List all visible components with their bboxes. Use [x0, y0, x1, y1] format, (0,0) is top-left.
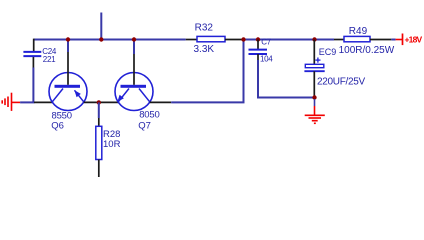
node bus dot EC9: [312, 37, 316, 41]
wire EC9 bottom pin: [313, 71, 315, 97]
wire C24 branch vertical: [33, 39, 35, 52]
svg-text:Q7: Q7: [138, 120, 151, 131]
svg-text:104: 104: [260, 54, 273, 63]
wire R32 left pin: [186, 39, 197, 41]
svg-text:R32: R32: [195, 23, 214, 34]
node bus dot top stub: [99, 37, 103, 41]
capacitor C7: [249, 38, 274, 64]
wire R28 top: [98, 102, 100, 118]
resistor R49: [339, 26, 395, 56]
svg-text:R49: R49: [349, 26, 368, 37]
svg-text:+18V: +18V: [405, 35, 423, 45]
node R28 junction: [97, 100, 101, 104]
wire R49 right pin: [370, 39, 391, 41]
transistor Q7: [115, 40, 160, 132]
resistor R32: [194, 23, 226, 56]
transistor Q6: [49, 40, 87, 132]
wire mid rail pins: [84, 101, 119, 103]
node ground junction: [312, 95, 316, 99]
wire C7 top pin: [257, 40, 259, 50]
svg-text:8050: 8050: [139, 109, 159, 120]
svg-text:220UF/25V: 220UF/25V: [317, 76, 366, 87]
node bus dot C7: [256, 37, 260, 41]
wire R49 left pin: [334, 39, 344, 41]
wire top bus: [34, 39, 186, 41]
node bus dot feedback: [241, 37, 245, 41]
wire top stub: [100, 13, 102, 41]
node bus dot Q6 base: [66, 37, 70, 41]
capacitor EC9: [304, 47, 365, 88]
ground right: [305, 99, 325, 123]
wire rail to feedback corner: [171, 40, 243, 103]
wire R32 right pin: [225, 39, 244, 41]
svg-text:EC9: EC9: [319, 47, 337, 57]
svg-text:10R: 10R: [103, 139, 121, 150]
wire EC9 top pin: [313, 40, 315, 65]
wire bus right of R32: [244, 39, 335, 41]
svg-text:100R/0.25W: 100R/0.25W: [339, 45, 395, 56]
node bus dot Q7 base: [132, 37, 136, 41]
wire Q7 right pin: [150, 101, 172, 103]
svg-text:C7: C7: [261, 38, 271, 47]
resistor R28: [96, 126, 121, 159]
wire left rail: [20, 101, 34, 103]
wire bus R49 to power: [391, 39, 395, 41]
wire C7 bottom to ground rail: [257, 54, 259, 60]
svg-text:221: 221: [43, 55, 56, 64]
svg-text:Q6: Q6: [51, 120, 64, 131]
ground left: [2, 93, 20, 111]
svg-text:3.3K: 3.3K: [194, 44, 215, 55]
capacitor C24: [23, 47, 57, 64]
wire R28 bottom: [98, 160, 100, 178]
power +18V: [396, 34, 423, 46]
wire Q6 left pin: [34, 101, 52, 103]
